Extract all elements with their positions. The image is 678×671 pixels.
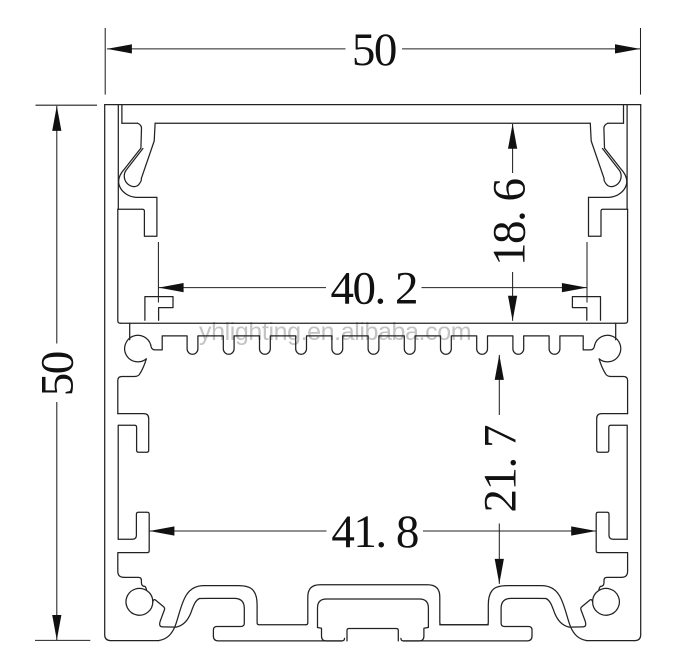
dimension extension line 40.2 left — [157, 242, 159, 303]
dimension extension line 40.2 right — [586, 242, 588, 303]
arrow 41.8 left — [149, 526, 174, 535]
svg-text:50: 50 — [352, 24, 396, 76]
svg-text:50: 50 — [31, 352, 83, 396]
arrow 50 left top — [52, 106, 61, 131]
svg-text:yhlighting.en.alibaba.com: yhlighting.en.alibaba.com — [199, 318, 471, 346]
hook clip right finger edge — [590, 123, 621, 186]
dimension line 41.8 right segment — [423, 530, 596, 532]
hanging flange boss right — [597, 414, 628, 540]
dimension line 40.2 left segment — [159, 287, 326, 289]
bottom screw circle right — [593, 588, 620, 615]
upper boss left — [118, 197, 157, 236]
hook clip left finger edge — [124, 123, 155, 186]
svg-text:41. 8: 41. 8 — [331, 506, 418, 558]
arrow 18.6 top — [508, 124, 517, 149]
dimension line 18.6 upper segment — [512, 124, 514, 173]
led platform surface — [120, 322, 625, 324]
dimension line 18.6 lower segment — [512, 272, 514, 321]
standing flange boss right — [596, 512, 627, 577]
center slot lip — [347, 629, 398, 641]
dimension line 50 top left segment — [107, 48, 346, 50]
platform hanger left — [129, 323, 131, 340]
arrow 41.8 right — [571, 526, 596, 535]
arch A inner — [200, 598, 245, 636]
arrow 50 left bottom — [52, 615, 61, 640]
bottom screw circle left — [126, 588, 153, 615]
cover groove slot left — [121, 105, 123, 124]
dimension line 21.7 lower segment — [498, 524, 500, 584]
bottom edge segment D — [587, 640, 635, 642]
center slot foot left — [318, 628, 343, 642]
wall inner face upper left — [117, 105, 119, 210]
bottom edge segment B — [213, 636, 344, 641]
bottom edge segment A — [111, 640, 159, 642]
dimension extension line left-top — [36, 104, 98, 106]
profile outer wall right — [635, 105, 641, 641]
arrow 50 top left — [107, 44, 132, 53]
dimension extension line top-right — [640, 28, 642, 95]
ledge left under circle — [118, 359, 147, 414]
dimension line 50 left upper segment — [56, 106, 58, 344]
arch C outer — [440, 586, 587, 641]
profile outer wall left — [105, 105, 111, 641]
upper boss right — [589, 197, 628, 236]
center slot inner — [318, 599, 429, 628]
dimension line 41.8 left segment — [149, 530, 326, 532]
arrow 50 top right — [615, 44, 640, 53]
profile top surface — [105, 104, 641, 106]
dimension line 50 left lower segment — [56, 402, 58, 640]
svg-text:21. 7: 21. 7 — [475, 425, 527, 513]
bottom ledge right — [599, 577, 622, 590]
screw dome circle left — [125, 335, 151, 362]
center slot foot right — [403, 628, 428, 642]
platform hanger right — [615, 323, 617, 340]
flange inner surface right — [608, 122, 624, 124]
dimension extension line left-bottom — [35, 639, 90, 641]
bottom v-notch right — [546, 599, 593, 628]
hook clip left outer edge — [119, 123, 157, 197]
arrow 18.6 bottom — [508, 296, 517, 321]
arrow 21.7 top — [495, 355, 504, 380]
cover groove slot right — [623, 105, 625, 124]
arch C inner — [501, 598, 546, 636]
arch A outer — [159, 586, 306, 641]
dimension extension line top-left — [104, 28, 106, 95]
upper cavity wall left — [118, 209, 121, 323]
arrow 21.7 bottom — [495, 559, 504, 584]
standing flange boss left — [118, 512, 149, 577]
dimension line 40.2 right segment — [422, 287, 587, 289]
bottom ledge left — [124, 577, 147, 590]
heat sink fins — [151, 336, 595, 354]
flange inner surface middle — [155, 122, 590, 124]
hook clip right outer edge — [589, 123, 627, 197]
arrow 40.2 right — [562, 283, 587, 292]
dimension line 50 top right segment — [402, 48, 640, 50]
center box outer — [306, 585, 489, 625]
arrow 40.2 left — [159, 283, 184, 292]
screw dome circle right — [595, 335, 621, 362]
bottom edge segment C — [401, 636, 532, 641]
step box left — [145, 297, 173, 321]
upper cavity wall right — [625, 209, 628, 323]
hanging flange boss left — [118, 414, 149, 540]
svg-text:40. 2: 40. 2 — [331, 263, 418, 315]
ledge right under circle — [599, 359, 628, 414]
svg-text:18. 6: 18. 6 — [484, 178, 536, 266]
bottom v-notch left — [153, 599, 200, 628]
step box right — [572, 297, 600, 321]
dimension line 21.7 upper segment — [498, 355, 500, 415]
flange inner surface left — [122, 122, 138, 124]
wall inner face upper right — [626, 105, 628, 210]
